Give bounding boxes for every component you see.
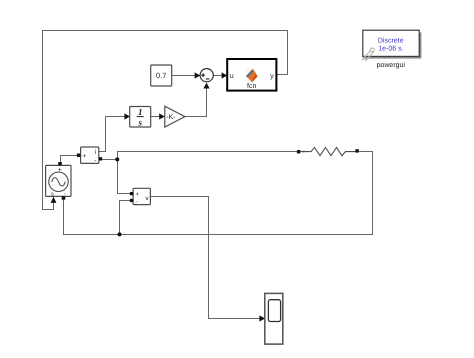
gain -K- (165, 106, 185, 127)
svg-text:Discrete: Discrete (378, 36, 404, 44)
svg-text:+: + (58, 167, 62, 174)
wire: gain output up to sum - input (185, 83, 210, 117)
svg-text:-: - (94, 157, 96, 164)
wire: voltage measurement v output down to scope (151, 197, 266, 322)
svg-text:i: i (95, 149, 96, 156)
scope block (265, 293, 283, 344)
wire: node A up-jog to resistor left terminal (118, 152, 297, 160)
svg-text:powergui: powergui (377, 61, 406, 69)
wire: current measurement - terminal to node A (102, 159, 118, 161)
node A junction dot (115, 157, 119, 161)
svg-text:u: u (230, 73, 234, 80)
wire: source + terminal to current measurement + (61, 156, 78, 166)
node B junction dot (118, 232, 122, 236)
sum block (200, 69, 213, 82)
svg-text:1: 1 (138, 107, 143, 117)
svg-text:-K-: -K- (166, 114, 176, 121)
wire: node B up to voltage measurement - (120, 201, 131, 235)
wire: node A down to voltage measurement + (118, 160, 131, 194)
wire: source - terminal down to bottom net (64, 152, 373, 235)
svg-text:0.7: 0.7 (156, 71, 166, 80)
constant 0.7 (151, 65, 172, 86)
wire: integrator output to gain (151, 113, 165, 119)
svg-text:+: + (135, 192, 139, 198)
powergui link badge (362, 48, 374, 61)
wire: sum output to fcn u input (213, 72, 227, 78)
svg-text:1e-06 s.: 1e-06 s. (378, 46, 403, 53)
MATLAB logo (245, 67, 257, 82)
svg-text:s: s (51, 191, 54, 197)
svg-text:fcn: fcn (247, 82, 256, 90)
svg-text:-: - (136, 199, 138, 205)
svg-text:-: - (64, 191, 66, 197)
powergui block (362, 30, 422, 61)
wire: current measurement i output to integrator (99, 113, 130, 151)
svg-text:y: y (270, 73, 274, 80)
series RLC branch resistor (297, 148, 359, 156)
voltage measurement V1 (130, 188, 151, 205)
wire: constant 0.7 to sum + input (172, 72, 201, 78)
integrator 1/s (130, 107, 151, 128)
svg-text:+: + (83, 153, 87, 160)
wire: fcn feedback loop (y output around to voltage-source s input) (43, 31, 288, 210)
MATLAB function block fcn (227, 59, 276, 91)
svg-text:s: s (137, 117, 142, 127)
current measurement I1 (77, 147, 102, 164)
controlled voltage source (46, 162, 71, 200)
